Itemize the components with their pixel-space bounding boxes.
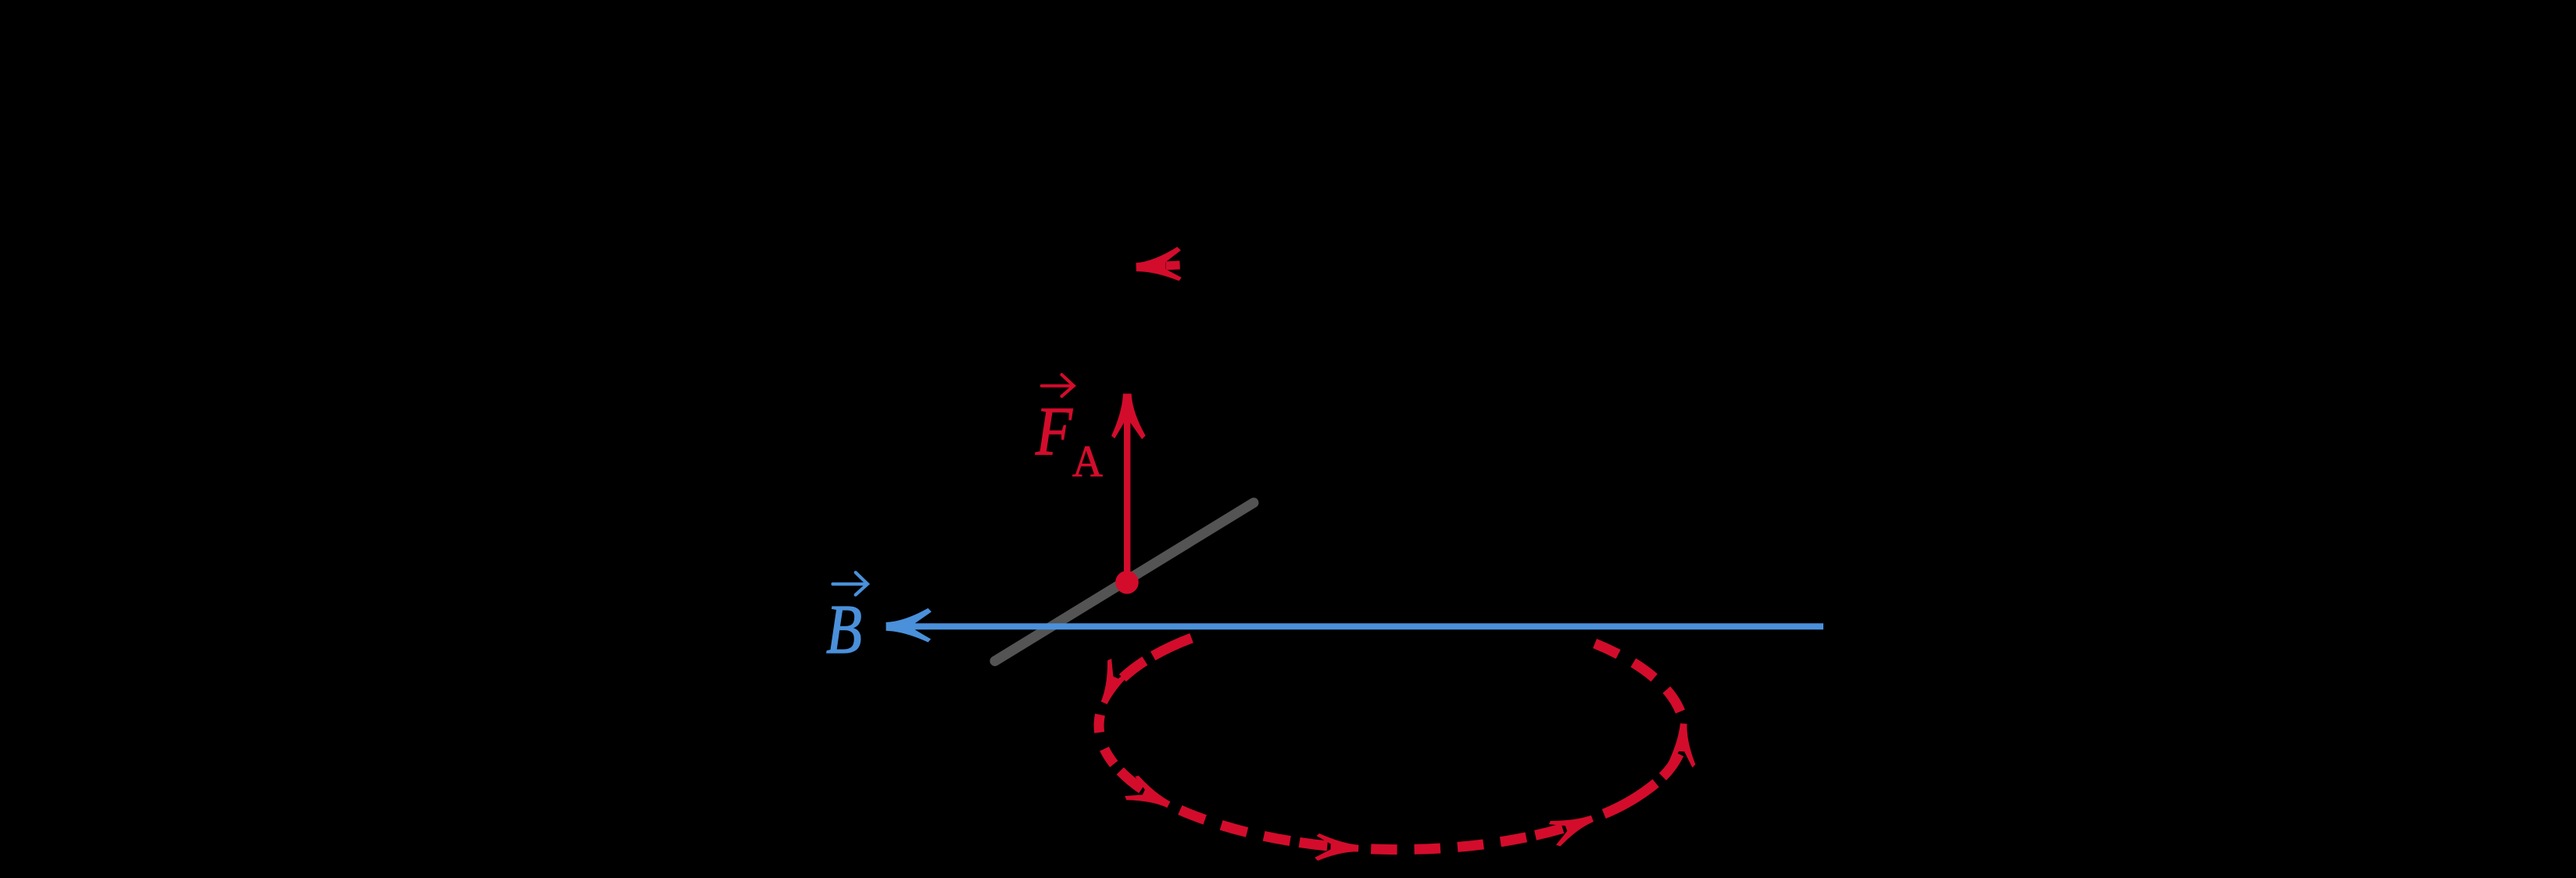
node: circulation arrow 3 (1300, 842, 1328, 846)
node: current direction arrowhead on hidden loop (top) (1136, 246, 1182, 282)
svg-text:B: B (826, 591, 862, 668)
node: circulation arrow 2 (1120, 771, 1142, 789)
wire: conducting rod (995, 503, 1254, 661)
wire: force vector F_A shaft (1124, 423, 1130, 582)
node: circulation arrow 5 (1662, 754, 1679, 776)
node: F_A arrowhead (up) (1111, 394, 1146, 439)
node: B field arrowhead (left-pointing) (886, 608, 932, 643)
node: circulation arrow 1 (1122, 661, 1145, 678)
node B: label B with vector accent (833, 572, 868, 595)
svg-text:A: A (1072, 437, 1103, 486)
node: current point P on rod (1115, 571, 1139, 594)
wire: magnetic field line B (914, 623, 1823, 629)
svg-text:F: F (1035, 393, 1073, 470)
node FA: label F_A with vector accent (1042, 374, 1074, 396)
wire: dashed circulation ellipse around B (1099, 638, 1680, 850)
node: circulation arrow 4 (1536, 829, 1563, 836)
